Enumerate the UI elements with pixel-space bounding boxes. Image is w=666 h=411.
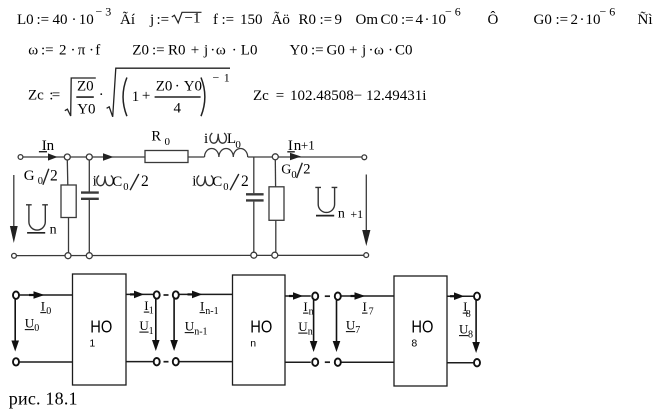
svg-text:L0: L0 — [17, 12, 34, 28]
svg-text:10: 10 — [431, 12, 446, 28]
svg-text:ω: ω — [216, 43, 226, 59]
svg-text:=: = — [52, 88, 60, 104]
svg-text:1: 1 — [224, 71, 230, 85]
port circle B1 bottom — [173, 358, 179, 365]
svg-text:j: j — [203, 43, 208, 59]
svg-text:Ãí: Ãí — [120, 12, 135, 28]
current arrow I8 — [454, 292, 464, 300]
svg-text:0: 0 — [235, 139, 241, 151]
label Un big left — [26, 205, 57, 238]
svg-text:2: 2 — [50, 167, 58, 184]
svg-text:R0: R0 — [299, 12, 317, 28]
svg-text:40: 40 — [53, 12, 68, 28]
svg-text:G: G — [24, 168, 35, 184]
node bottom 4 — [272, 252, 278, 258]
equation Z0 := R0 + j*omega*L0 — [132, 43, 257, 59]
dash between pair 1 bottom — [164, 361, 169, 363]
terminal top-left — [18, 155, 23, 160]
wire block 8 out top — [447, 295, 473, 297]
svg-text:7: 7 — [369, 307, 374, 318]
svg-text:2: 2 — [571, 12, 579, 28]
svg-text:− 6: − 6 — [445, 5, 461, 19]
svg-text:+: + — [142, 88, 150, 104]
svg-text:Y0: Y0 — [184, 78, 202, 94]
svg-text:4: 4 — [174, 100, 182, 116]
svg-text:·: · — [232, 43, 237, 59]
svg-text::=: := — [41, 43, 54, 59]
svg-text:10: 10 — [586, 12, 601, 28]
svg-text:− 6: − 6 — [600, 5, 616, 19]
wire into block n top — [179, 293, 233, 295]
svg-text:Ñì: Ñì — [638, 12, 653, 28]
wire left shunt resistor to bottom — [68, 218, 70, 253]
wire inductor to right terminal — [248, 156, 364, 158]
capacitor C0/2 right plates — [246, 193, 264, 195]
svg-text:i: i — [204, 131, 208, 147]
svg-text:n: n — [250, 338, 256, 350]
wire right shunt resistor to bottom — [275, 220, 277, 252]
resistor G0/2 left box — [61, 185, 76, 218]
svg-text:+1: +1 — [301, 138, 315, 153]
svg-text:·: · — [89, 43, 94, 59]
port circle input bottom — [13, 358, 19, 365]
label iwL0 — [204, 131, 241, 151]
voltage arrow Un+1 head — [362, 230, 370, 246]
port circle input top — [13, 292, 19, 299]
wire block1 out bottom — [126, 361, 153, 363]
voltage arrow Un+1 shaft — [365, 175, 367, 233]
svg-text:G: G — [281, 163, 291, 178]
svg-text:Om: Om — [356, 12, 379, 28]
wire R0 to inductor — [188, 156, 205, 158]
current arrow In-1 — [192, 291, 202, 299]
svg-text:рис. 18.1: рис. 18.1 — [9, 389, 78, 409]
svg-text::=: := — [556, 12, 569, 28]
dash between pair 2 bottom — [325, 361, 330, 363]
voltage arrow Un shaft — [13, 175, 15, 228]
svg-text:i: i — [192, 174, 196, 190]
svg-text:j: j — [361, 43, 366, 59]
equation j := sqrt(-1) — [149, 11, 200, 29]
equation R0 := 9 Om — [299, 12, 379, 28]
node junction 1 — [64, 154, 70, 160]
svg-text:ω: ω — [374, 43, 384, 59]
resistor R0 box — [145, 151, 188, 163]
equation Y0 := G0 + j*omega*C0 — [290, 43, 413, 59]
svg-text:f: f — [95, 43, 100, 59]
label iwC0/2 right — [192, 173, 248, 193]
node junction 3 — [272, 154, 278, 160]
svg-text:0: 0 — [223, 182, 228, 193]
block HO 8 box — [394, 276, 447, 386]
node bottom 3 — [251, 252, 257, 258]
current arrow I0 — [34, 291, 45, 299]
svg-text:n-1: n-1 — [205, 306, 218, 317]
wire block n out top — [285, 295, 311, 297]
current arrow into R0 head — [103, 153, 114, 161]
label R0 — [151, 129, 170, 149]
svg-text:+: + — [191, 43, 199, 59]
current arrow I1 — [134, 291, 144, 299]
port circle out top — [474, 293, 480, 300]
svg-text:+: + — [349, 43, 357, 59]
svg-text:12.49431i: 12.49431i — [366, 88, 426, 104]
svg-text:4: 4 — [416, 12, 424, 28]
voltage arrow Un — [313, 300, 315, 343]
parenthesized 1 + Z0*Y0/4 — [123, 78, 127, 117]
svg-text:+1: +1 — [350, 207, 363, 221]
svg-text:1: 1 — [89, 338, 95, 350]
svg-text:Y0: Y0 — [77, 101, 95, 117]
svg-text:Z0: Z0 — [132, 43, 149, 59]
port circle A1 bottom — [154, 358, 160, 365]
svg-text:102.48508−: 102.48508− — [290, 88, 362, 104]
voltage arrow U1 — [155, 298, 157, 341]
label Un+1 big right — [315, 187, 363, 221]
svg-text:1: 1 — [149, 326, 154, 337]
inductor jwL0 — [205, 148, 248, 157]
radical sign 2 — [107, 68, 230, 117]
current arrow In+1 head — [290, 153, 301, 161]
svg-text:C: C — [212, 174, 222, 190]
svg-text::=: := — [320, 12, 333, 28]
equation f := 150 Gc — [213, 12, 290, 28]
port circle A1 top — [154, 291, 160, 298]
node bottom 1 — [65, 253, 71, 259]
label In — [42, 138, 55, 154]
svg-text:0: 0 — [123, 182, 128, 193]
svg-text:n: n — [50, 222, 57, 237]
terminal bottom-left — [12, 253, 17, 258]
label iwC0/2 left — [93, 173, 149, 193]
svg-text:0: 0 — [46, 306, 51, 317]
equation Zc definition — [28, 88, 60, 104]
label G0/2 right — [281, 161, 310, 181]
equation L0 := 40*10^-3 Gn — [17, 5, 135, 29]
svg-text:150: 150 — [240, 12, 263, 28]
wire to left capacitor — [88, 160, 90, 192]
equation G0 := 2*10^-6 Sm — [534, 5, 653, 29]
svg-text:0: 0 — [34, 323, 39, 334]
svg-text::=: := — [222, 12, 235, 28]
capacitor C0/2 left plates — [81, 191, 99, 193]
svg-text:2: 2 — [141, 173, 149, 190]
svg-text:Ãö: Ãö — [272, 12, 290, 28]
block HO n box — [233, 275, 286, 385]
svg-text:7: 7 — [355, 325, 360, 336]
port circle B2 top — [335, 293, 341, 300]
svg-text:Ô: Ô — [488, 11, 499, 28]
current arrow I7 — [355, 292, 366, 300]
fraction Z0/Y0 — [77, 78, 96, 117]
svg-text:·: · — [175, 78, 180, 94]
dash between pair 1 top — [164, 294, 169, 296]
dash between pair 2 top — [325, 295, 330, 297]
port circle A2 top — [312, 293, 318, 300]
svg-text::=: := — [152, 43, 165, 59]
node junction 2 — [86, 154, 92, 160]
svg-text:π: π — [78, 43, 86, 59]
wire into block 8 top — [341, 295, 394, 297]
svg-text:n: n — [308, 327, 313, 338]
bottom rail wire — [16, 254, 364, 256]
svg-text:ω: ω — [28, 43, 38, 59]
block HO 1 box — [73, 274, 127, 385]
equation Zc result — [253, 88, 426, 104]
svg-text:·: · — [388, 43, 393, 59]
svg-text:I: I — [41, 299, 45, 314]
svg-text:·: · — [210, 43, 215, 59]
wire input top to block 1 — [20, 294, 73, 296]
wire block 8 out bottom — [447, 362, 473, 364]
svg-text:·: · — [369, 43, 374, 59]
voltage arrow Un-1 — [173, 298, 175, 341]
port circle out bottom — [474, 359, 480, 366]
svg-text:·: · — [580, 12, 585, 28]
radical sign of sqrt(-1) — [172, 12, 202, 22]
wire top-left to R0 — [23, 156, 145, 158]
wire block1 out top — [126, 293, 153, 295]
svg-text:U: U — [25, 316, 35, 331]
svg-text:2: 2 — [59, 43, 67, 59]
label G0/2 left — [24, 167, 58, 187]
svg-text:I: I — [200, 299, 204, 314]
equation omega := 2*pi*f — [28, 43, 100, 59]
wire block n out bottom — [285, 361, 311, 363]
svg-text:НО: НО — [90, 317, 112, 336]
svg-text:Zc: Zc — [28, 88, 44, 104]
svg-text:·: · — [99, 87, 104, 103]
svg-text:I: I — [363, 299, 367, 314]
wire input bottom to block 1 — [20, 361, 73, 363]
svg-text:Z0: Z0 — [156, 78, 173, 94]
resistor G0/2 right box — [269, 187, 284, 221]
terminal bottom-right — [364, 253, 369, 258]
svg-text:Z0: Z0 — [77, 78, 94, 94]
node bottom 2 — [86, 253, 92, 259]
svg-text:R: R — [151, 129, 161, 145]
svg-text:n-1: n-1 — [194, 327, 207, 338]
current arrow In head — [48, 153, 58, 160]
wire right capacitor to bottom — [253, 202, 255, 253]
port circle B2 bottom — [335, 359, 341, 366]
svg-text:НО: НО — [411, 317, 433, 336]
label In+1 — [288, 138, 315, 154]
svg-text:n: n — [47, 138, 55, 154]
svg-text:8: 8 — [466, 309, 471, 320]
svg-text::=: := — [401, 12, 414, 28]
svg-text:G0: G0 — [327, 43, 345, 59]
svg-text:·: · — [425, 12, 430, 28]
svg-text:·: · — [72, 12, 77, 28]
port circle B1 top — [173, 291, 179, 298]
svg-text:L0: L0 — [241, 43, 258, 59]
svg-text:Zc: Zc — [253, 88, 269, 104]
svg-text:·: · — [71, 43, 76, 59]
wire to right shunt resistor — [274, 160, 276, 187]
wire left capacitor to bottom — [88, 200, 90, 253]
svg-text:10: 10 — [79, 12, 94, 28]
svg-text::=: := — [157, 12, 170, 28]
svg-text::=: := — [37, 12, 50, 28]
svg-text:НО: НО — [250, 317, 272, 336]
svg-text:0: 0 — [165, 136, 171, 148]
svg-text:−: − — [213, 71, 220, 85]
svg-text:U: U — [185, 319, 195, 334]
voltage arrow U0 — [14, 299, 16, 342]
svg-text:j: j — [149, 12, 154, 28]
svg-text:n: n — [309, 307, 314, 318]
wire to right capacitor — [253, 157, 255, 193]
svg-text:Y0: Y0 — [290, 43, 308, 59]
svg-text:− 3: − 3 — [96, 5, 112, 19]
voltage arrow U8 — [475, 300, 477, 343]
svg-text:0: 0 — [291, 170, 296, 181]
svg-text:f: f — [213, 12, 218, 28]
svg-text:9: 9 — [335, 12, 343, 28]
wire into block n bottom — [179, 361, 233, 363]
svg-text:0: 0 — [38, 176, 43, 187]
svg-text:8: 8 — [468, 330, 473, 341]
current arrow In — [293, 292, 303, 300]
port circle A2 bottom — [312, 359, 318, 366]
svg-text:G0: G0 — [534, 12, 552, 28]
svg-text:n: n — [338, 206, 345, 221]
svg-text:=: = — [276, 88, 284, 104]
svg-text::=: := — [311, 43, 324, 59]
svg-text:2: 2 — [241, 173, 249, 190]
voltage arrow Un head — [10, 226, 18, 243]
svg-text:I: I — [303, 299, 307, 314]
svg-text:1: 1 — [132, 89, 140, 105]
svg-text:C0: C0 — [381, 12, 399, 28]
equation C0 := 4*10^-6 F — [381, 5, 499, 29]
svg-text:C0: C0 — [395, 43, 413, 59]
svg-text:8: 8 — [411, 338, 417, 350]
wire into block 8 bottom — [341, 361, 394, 363]
svg-text:2: 2 — [303, 161, 310, 177]
svg-text:C: C — [112, 174, 122, 190]
svg-text:1: 1 — [149, 306, 154, 317]
svg-text:R0: R0 — [168, 43, 186, 59]
radical sign 1 — [65, 78, 96, 116]
voltage arrow U7 — [336, 300, 338, 343]
wire to left shunt resistor — [66, 160, 69, 185]
terminal top-right — [362, 155, 367, 160]
